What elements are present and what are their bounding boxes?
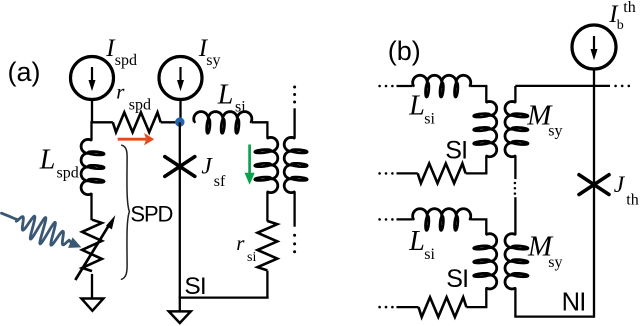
wire secondary bottom (a) [293,192,295,227]
svg-text:spd: spd [115,52,137,69]
svg-text:L: L [217,80,234,111]
label r_spd [116,80,151,114]
resistor r_spd [113,112,161,132]
inductor L_si (a) [194,112,252,134]
josephson junction J_sf [165,157,195,177]
wire row 1 to primary (b) [471,85,488,87]
svg-text:NI: NI [562,288,586,316]
transformer M_sy upper secondary [514,86,516,103]
transformer M_sy upper primary [485,86,487,103]
wire L_si to transformer [252,121,269,123]
svg-text:si: si [424,246,435,263]
photon wavy arrow [2,213,82,248]
wire secondary top (a) [293,108,295,138]
bottom wire (b) [514,315,594,317]
svg-text:b: b [617,18,624,33]
label L_si (a) [217,80,246,116]
label L_spd [39,144,79,181]
continuation dots below secondary (a) [293,234,296,253]
svg-text:L: L [408,91,425,122]
wire row 3 to primary (b) [471,218,488,220]
label J_th [614,172,639,208]
label J_sf [201,153,226,189]
red current arrow [118,133,155,145]
wire I_sy to node [179,99,181,122]
wire row 4 (b) [397,306,419,308]
svg-text:L: L [39,144,56,175]
wire row 2 (b) [397,172,418,174]
label I_spd [105,35,137,69]
svg-text:sy: sy [548,254,562,271]
current source I_spd [71,57,114,100]
label r_si [236,231,256,265]
wire I_spd to node [91,99,93,123]
ground (SI) [169,311,191,323]
josephson junction J_th [579,175,609,195]
inductor L_si (b) upper [413,75,471,97]
wire node to L_spd [90,122,92,140]
wire variable resistor to ground [91,274,93,299]
wire left to resistor [90,121,112,123]
bottom wire (a) [179,296,269,298]
wire secondary to dots (b middle) [514,156,516,180]
svg-text:sy: sy [206,52,220,69]
node junction (blue dot) [175,117,184,126]
label M_sy upper [526,100,562,140]
svg-text:r: r [116,80,125,104]
wire SI column (junction to bottom) [179,167,181,298]
label L_si (b) lower [408,226,435,263]
wire row 3 (b) [397,218,413,220]
continuation dots between transformers (b) [514,182,517,195]
resistor r_si [258,221,278,270]
continuation dots top right (b) [614,85,630,88]
label L_si (b) upper [408,91,435,128]
variable resistor arrow [75,215,115,280]
svg-text:SI: SI [445,137,467,165]
svg-text:spd: spd [129,97,151,114]
svg-text:th: th [626,192,638,209]
svg-text:si: si [424,110,435,127]
wire bias bottom (b) [593,185,595,318]
ground (SPD branch) [81,299,103,311]
svg-text:J: J [614,172,626,198]
svg-text:sy: sy [548,122,562,139]
label I_b^th [608,0,635,33]
wire row 1 (b) [397,85,413,87]
svg-text:si: si [247,250,256,265]
transformer (a) primary winding [266,122,268,138]
wire dots to lower secondary (b) [514,197,516,235]
continuation dots row 1 (b) [378,85,393,88]
transformer M_sy lower primary [485,219,487,234]
green current arrow [245,145,255,185]
wire L_spd to variable resistor [90,193,92,220]
svg-text:SI: SI [446,265,468,293]
current source I_b [572,25,616,69]
wire SI column (node to junction) [179,122,181,166]
svg-text:(b): (b) [388,36,421,66]
wire r_si to bottom wire [266,271,268,298]
inductor L_spd [81,139,104,194]
svg-text:SPD: SPD [130,201,172,226]
wire resistor to node [161,121,180,123]
svg-text:spd: spd [57,164,79,181]
resistor SI (b) upper [418,164,466,184]
svg-text:J: J [201,153,213,179]
svg-text:si: si [235,98,246,115]
label M_sy lower [527,230,563,271]
svg-text:sf: sf [214,173,226,190]
transformer M_sy lower secondary [505,234,528,289]
continuation dots row 4 (b) [378,306,393,309]
svg-text:th: th [623,0,635,16]
current source I_sy [159,57,202,100]
wire bias top (b) [593,69,595,185]
continuation dots row 2 (b) [378,172,393,175]
wire transformer to r_si [266,192,268,222]
continuation dots above secondary (a) [293,86,296,104]
wire row 2 to primary (b) [466,172,488,174]
wire row 4 to primary (b) [466,306,487,308]
top wire (b) [515,85,610,87]
svg-text:(a): (a) [8,57,41,87]
svg-text:L: L [408,226,425,257]
wire to ground (a) [179,298,181,312]
svg-text:SI: SI [184,273,206,300]
svg-text:r: r [236,231,245,255]
transformer (a) secondary winding [284,137,307,192]
continuation dots row 3 (b) [378,218,393,221]
brace SPD [122,145,130,279]
variable resistor (photon detector) [82,220,102,271]
resistor SI (b) lower [419,297,467,317]
label I_sy [198,35,221,69]
inductor L_si (b) lower [413,209,471,231]
